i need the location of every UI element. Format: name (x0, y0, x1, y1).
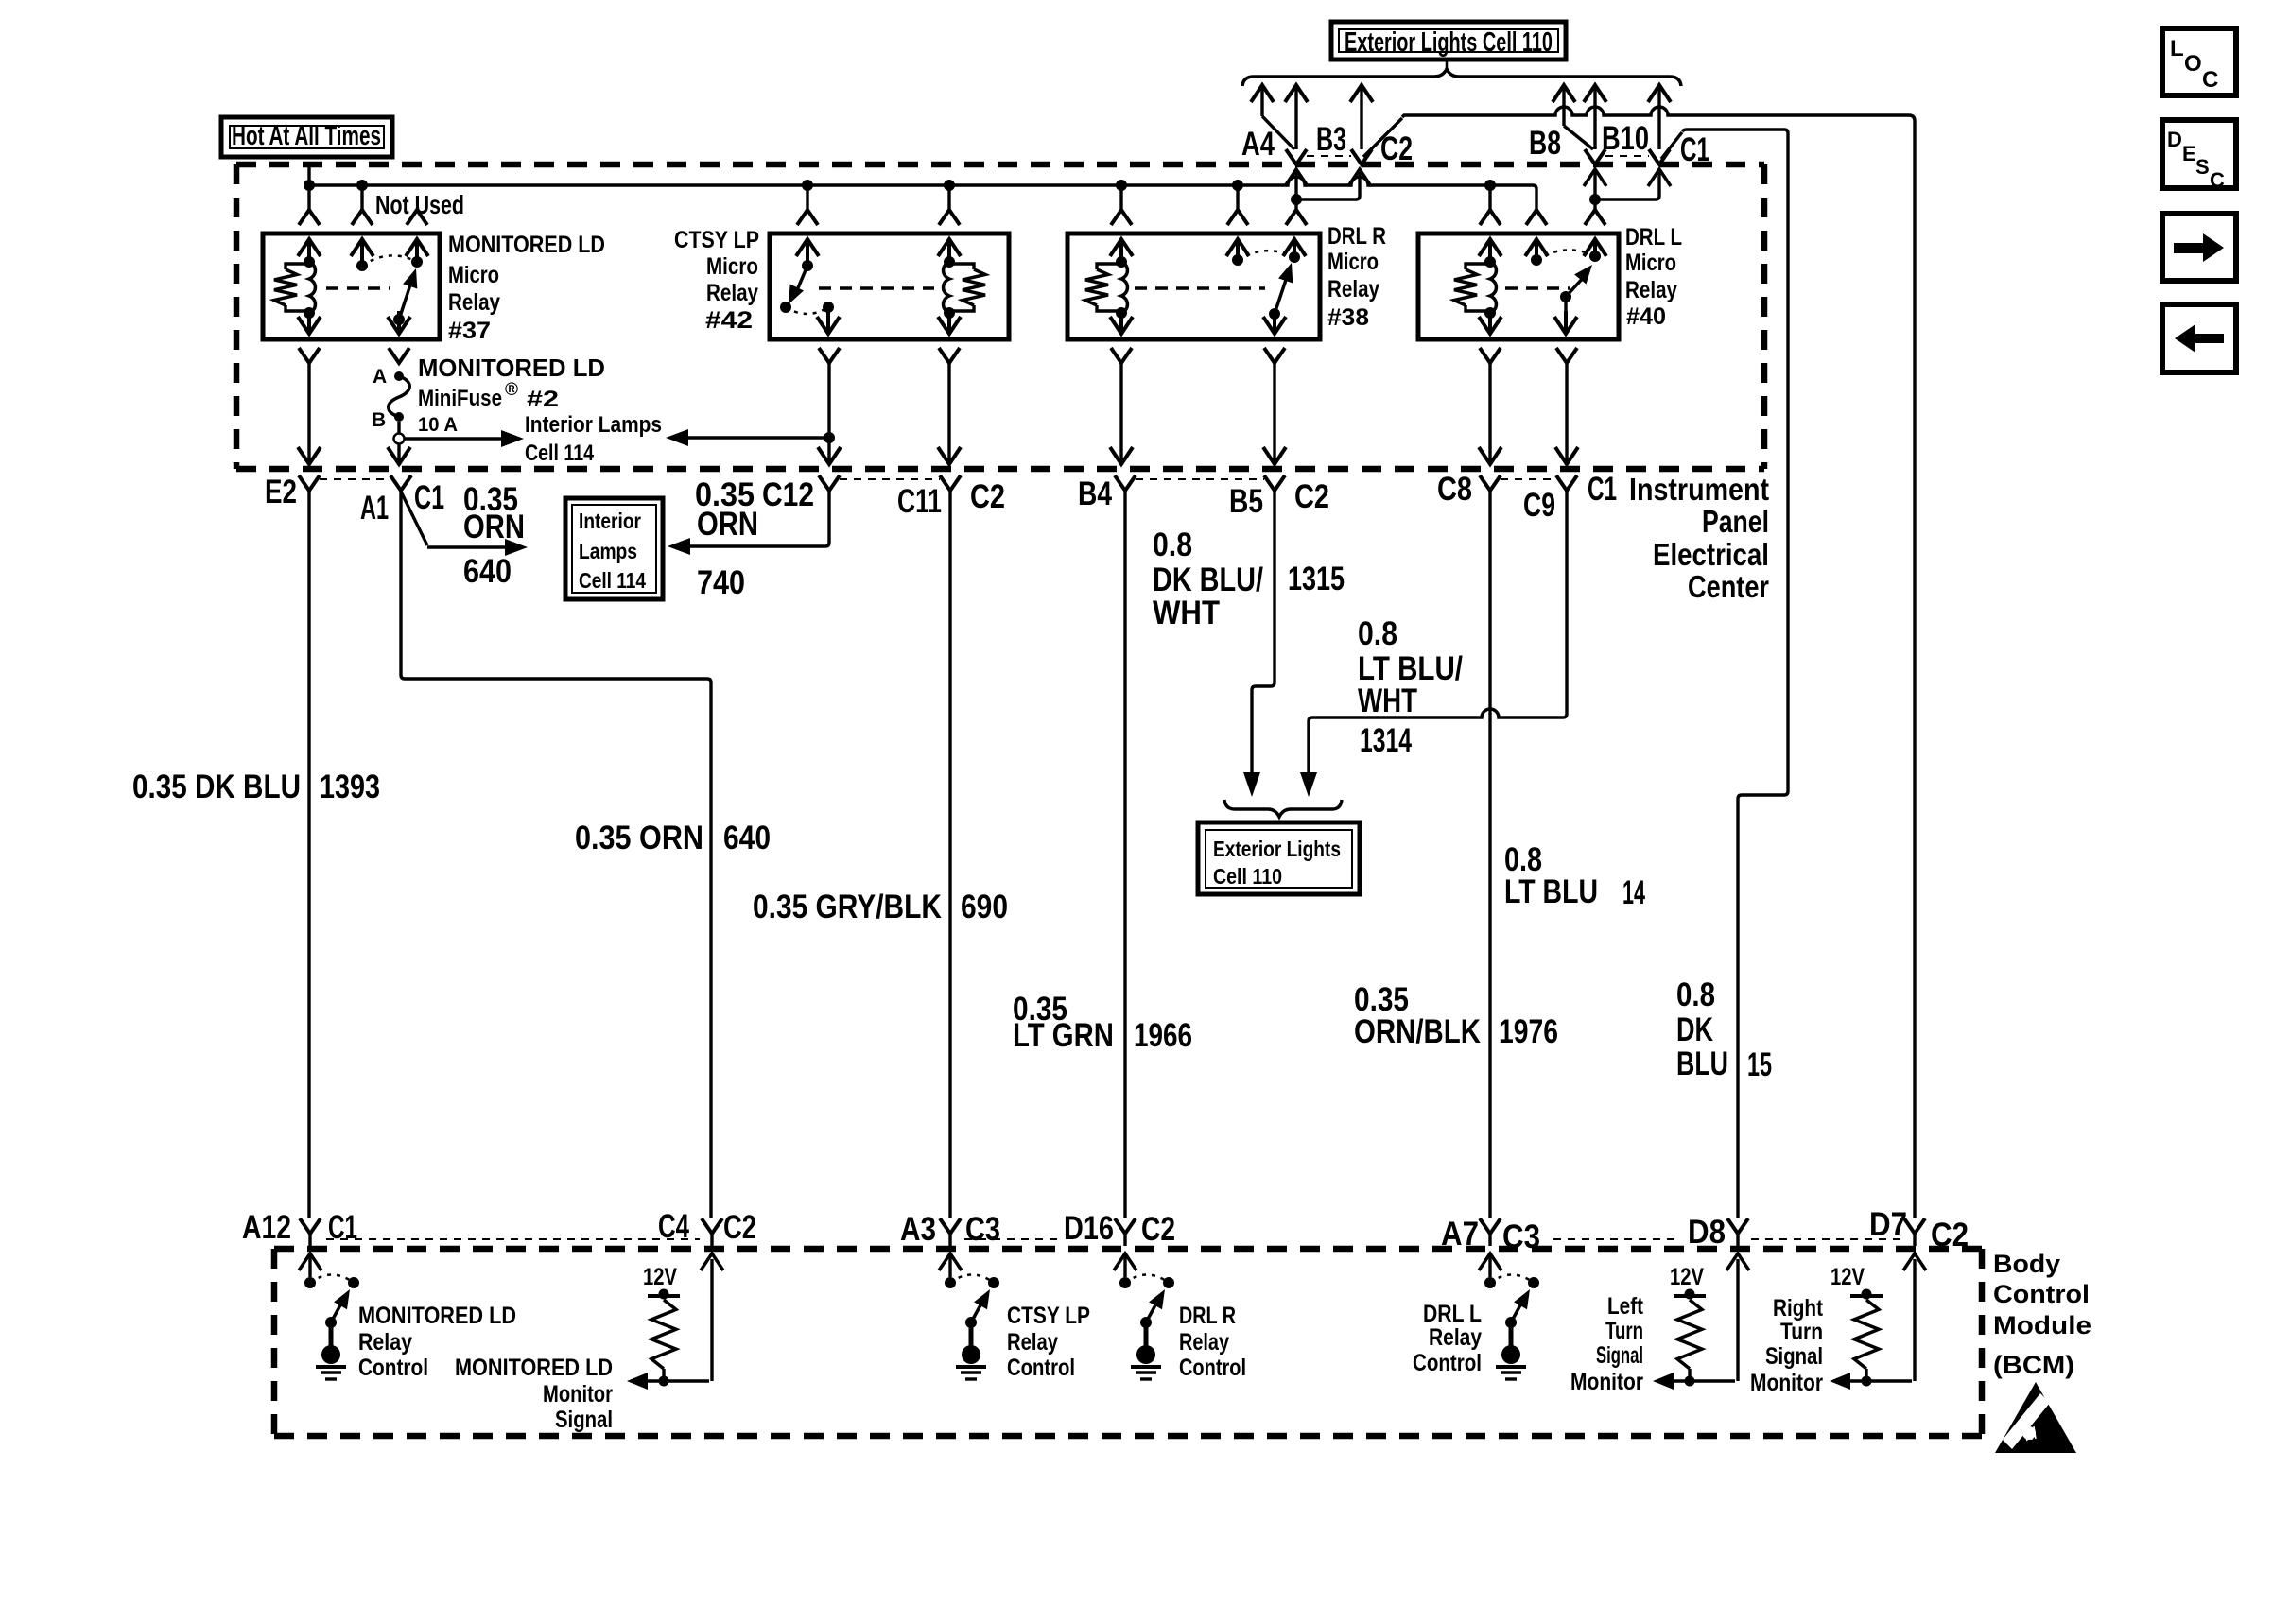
BCM pin D16 connector (1115, 1218, 1136, 1234)
wire from junction down to relay contact (1294, 199, 1297, 210)
bus junction dot K40 coil feed (1484, 180, 1496, 191)
svg-text:D: D (2167, 128, 2182, 151)
svg-text:Not Used: Not Used (375, 190, 464, 219)
svg-text:12V: 12V (1831, 1264, 1865, 1290)
K37 actuation dashed (326, 286, 390, 290)
bus junction dot K42 coil feed (944, 180, 955, 191)
svg-text:1966: 1966 (1134, 1017, 1192, 1054)
thin connector dashes (320, 478, 390, 480)
K37 not-used pin (407, 210, 427, 225)
wire 1393 E2 to A12 (307, 491, 310, 1218)
svg-text:A7: A7 (1441, 1216, 1479, 1253)
svg-text:WHT: WHT (1153, 595, 1220, 631)
svg-text:Monitor: Monitor (1570, 1369, 1643, 1395)
K40 coil pin (1488, 185, 1491, 210)
svg-text:Monitor: Monitor (543, 1381, 613, 1408)
K40 switch mid pin (1526, 210, 1547, 225)
BCM CTSY LP relay control switch (939, 1253, 962, 1270)
pin C1 connector (1649, 149, 1670, 164)
wire B3 riser (1285, 85, 1308, 102)
K40 contact pin riser (1593, 239, 1597, 256)
svg-text:B4: B4 (1078, 475, 1112, 512)
svg-text:DK BLU/: DK BLU/ (1153, 561, 1263, 598)
svg-text:C3: C3 (1502, 1218, 1540, 1255)
right arrow legend box (2162, 214, 2236, 281)
svg-text:C1: C1 (1588, 471, 1617, 508)
LOC legend box (2162, 28, 2236, 95)
brace over Exterior Lights box (lower) (1224, 800, 1342, 817)
svg-text:1314: 1314 (1360, 722, 1412, 759)
BCM pin C4 connector (702, 1218, 722, 1234)
thin dashes BCM top (326, 1238, 700, 1240)
BCM pin A12 connector (300, 1218, 321, 1234)
svg-text:D8: D8 (1688, 1214, 1726, 1251)
svg-text:Interior Lamps: Interior Lamps (525, 412, 662, 438)
svg-text:LT BLU: LT BLU (1504, 873, 1598, 910)
svg-text:A: A (373, 366, 387, 388)
svg-text:DRL R: DRL R (1327, 223, 1386, 250)
bus junction dot K38 coil feed (1116, 180, 1127, 191)
svg-text:1976: 1976 (1499, 1013, 1558, 1050)
BCM pin A3 connector (940, 1218, 961, 1234)
svg-text:Right: Right (1773, 1295, 1824, 1322)
svg-text:C4: C4 (658, 1208, 689, 1245)
BCM pin D8 connector (1727, 1218, 1748, 1234)
IPEC pin E2 connector (299, 475, 320, 491)
svg-text:C1: C1 (328, 1209, 357, 1246)
wire C8 to A7 (1488, 491, 1491, 1218)
K40 switch arm (1560, 291, 1571, 302)
K37 mid pin (bus) (360, 185, 363, 210)
IPEC pin B4 connector (1115, 475, 1136, 491)
svg-text:Relay: Relay (1625, 277, 1677, 303)
Interior Lamps Cell 114 box (565, 498, 663, 599)
svg-text:Interior: Interior (579, 509, 641, 533)
K38 actuation dashed (1135, 286, 1265, 290)
K38 coil pin (1119, 185, 1122, 210)
pin B8/B10 connector (1585, 149, 1605, 164)
svg-text:Cell 110: Cell 110 (1213, 864, 1282, 889)
svg-text:D7: D7 (1869, 1206, 1907, 1243)
svg-text:C2: C2 (723, 1209, 756, 1246)
svg-text:A1: A1 (360, 490, 389, 527)
K42 actuation dashed (819, 286, 934, 290)
K37 coil pin (307, 185, 310, 210)
svg-text:Signal: Signal (1596, 1342, 1643, 1369)
svg-text:CTSY LP: CTSY LP (674, 227, 759, 253)
svg-text:D16: D16 (1064, 1210, 1114, 1247)
svg-text:B: B (372, 409, 386, 431)
svg-text:Relay: Relay (1429, 1324, 1482, 1351)
svg-text:Electrical: Electrical (1653, 537, 1769, 572)
wire K42 coil to C11 (947, 373, 950, 461)
svg-text:CTSY LP: CTSY LP (1007, 1303, 1090, 1329)
svg-text:ORN: ORN (463, 509, 525, 545)
svg-text:#37: #37 (448, 318, 491, 344)
svg-text:Relay: Relay (1327, 276, 1379, 302)
pin B10 arrow from relay DRL L (1584, 169, 1606, 186)
svg-text:C2: C2 (1931, 1217, 1969, 1253)
K37 contact arc (362, 255, 417, 266)
svg-text:DRL L: DRL L (1625, 224, 1682, 251)
svg-text:Module: Module (1993, 1311, 2091, 1339)
svg-text:Relay: Relay (1007, 1329, 1058, 1356)
BCM DRL L relay control switch (1479, 1253, 1501, 1270)
svg-text:Micro: Micro (1625, 250, 1676, 276)
svg-text:690: 690 (961, 889, 1008, 925)
svg-text:MONITORED LD: MONITORED LD (358, 1303, 516, 1329)
bus wire to BCM D7 with hops (1402, 107, 1915, 1218)
arrow to Interior Lamps text (405, 437, 503, 441)
wire from border to bus (307, 167, 310, 185)
svg-text:Relay: Relay (706, 280, 758, 306)
wire B10 riser (1584, 85, 1606, 102)
K38 contact pin riser (1293, 239, 1296, 257)
K38 switch mid pin (1236, 185, 1239, 210)
svg-text:B5: B5 (1229, 483, 1263, 520)
svg-text:ORN/BLK: ORN/BLK (1354, 1013, 1481, 1050)
svg-text:B10: B10 (1602, 120, 1649, 157)
svg-text:0.8: 0.8 (1358, 615, 1397, 652)
IPEC pin C11 connector (940, 475, 961, 491)
svg-text:WHT: WHT (1358, 682, 1417, 719)
svg-text:BLU: BLU (1676, 1045, 1728, 1082)
svg-text:15: 15 (1747, 1046, 1772, 1083)
svg-text:#40: #40 (1626, 303, 1666, 330)
svg-text:1393: 1393 (320, 769, 380, 805)
svg-text:Signal: Signal (555, 1407, 613, 1433)
wire C1 riser (1648, 85, 1671, 102)
wire 690 C11 to A3 (948, 491, 951, 1218)
wire 1966 B4 to D16 (1123, 491, 1126, 1218)
svg-text:0.8: 0.8 (1676, 976, 1715, 1013)
thin connector dash A4-B3 (1307, 155, 1351, 157)
svg-text:#42: #42 (705, 307, 753, 334)
wire C1 diagonal and run to BCM D8 (1661, 132, 1682, 159)
svg-text:MONITORED LD: MONITORED LD (418, 354, 605, 382)
IPEC supply bus (309, 177, 1536, 210)
bus junction dot K42 switch feed (802, 180, 813, 191)
Instrument Panel Electrical Center dashed box (236, 162, 1764, 168)
svg-text:Exterior Lights: Exterior Lights (1213, 837, 1341, 861)
DESC legend box (2162, 120, 2236, 188)
Body Control Module dashed box (274, 1246, 1982, 1253)
wire 640 A1 branch to interior lamps (401, 492, 427, 545)
svg-text:12V: 12V (1670, 1264, 1704, 1290)
svg-text:Signal: Signal (1765, 1343, 1823, 1370)
svg-text:Relay: Relay (1179, 1329, 1229, 1356)
ESD sensitive symbol (1995, 1382, 2076, 1453)
svg-text:0.35 DK BLU: 0.35 DK BLU (132, 769, 301, 805)
svg-text:640: 640 (723, 820, 771, 856)
svg-text:Cell 114: Cell 114 (525, 441, 595, 466)
svg-text:14: 14 (1622, 874, 1645, 911)
svg-text:C2: C2 (1294, 478, 1329, 515)
svg-text:C2: C2 (970, 478, 1005, 515)
svg-text:(BCM): (BCM) (1993, 1351, 2074, 1379)
svg-text:Instrument: Instrument (1629, 472, 1769, 507)
wire 1315 B5 to exterior lights (1252, 491, 1275, 777)
svg-text:Hot At All Times: Hot At All Times (232, 121, 381, 151)
svg-text:Control: Control (358, 1355, 428, 1381)
svg-text:12V: 12V (643, 1264, 677, 1290)
svg-text:DRL L: DRL L (1423, 1301, 1482, 1327)
svg-text:B3: B3 (1316, 121, 1346, 158)
K42 contact arc (786, 307, 828, 314)
svg-text:C: C (2210, 168, 2225, 192)
Hot At All Times box (221, 117, 392, 157)
svg-text:#2: #2 (527, 387, 559, 412)
pin B3 connector (1351, 149, 1372, 164)
IPEC pin C12 connector (819, 475, 840, 491)
svg-text:MONITORED LD: MONITORED LD (448, 232, 605, 258)
svg-text:Control: Control (1413, 1350, 1482, 1376)
svg-text:640: 640 (463, 553, 512, 590)
K42 switch mid pin (806, 185, 808, 210)
fuse splice circle (397, 422, 400, 434)
relay K42 CTSY LP box (770, 233, 1009, 339)
svg-text:Relay: Relay (358, 1329, 412, 1356)
svg-text:Lamps: Lamps (579, 539, 637, 563)
svg-text:DRL R: DRL R (1179, 1303, 1236, 1329)
svg-text:Turn: Turn (1605, 1318, 1643, 1344)
wire 640 A1 to C4 (401, 491, 711, 1218)
svg-text:Relay: Relay (448, 289, 500, 316)
svg-text:LT GRN: LT GRN (1013, 1017, 1114, 1054)
svg-text:10 A: 10 A (418, 414, 458, 436)
svg-text:S: S (2195, 155, 2210, 179)
svg-text:C1: C1 (1680, 131, 1709, 168)
svg-text:Body: Body (1993, 1250, 2060, 1278)
svg-text:Micro: Micro (448, 262, 499, 288)
svg-text:0.35 ORN: 0.35 ORN (575, 820, 703, 856)
svg-text:MiniFuse: MiniFuse (418, 386, 502, 411)
relay K37 MONITORED LD box (263, 233, 440, 339)
svg-text:C3: C3 (965, 1211, 1000, 1248)
IPEC pin C9 connector (1556, 475, 1577, 491)
svg-text:B8: B8 (1529, 125, 1561, 162)
K37 switch arm (393, 314, 405, 325)
junction B10/C1 (1589, 194, 1601, 205)
wire B8 to Exterior Lights (1553, 85, 1575, 102)
svg-text:Left: Left (1607, 1293, 1644, 1320)
K37 coil (304, 256, 315, 268)
svg-text:A3: A3 (900, 1211, 936, 1248)
svg-text:ORN: ORN (697, 506, 758, 543)
bus junction dot K38 switch feed (1232, 180, 1243, 191)
BCM DRL R relay control switch (1114, 1253, 1136, 1270)
wire K40 coil to C8 (1488, 373, 1491, 461)
junction A4/B3 (1291, 194, 1302, 205)
svg-text:Control: Control (1993, 1280, 2090, 1308)
svg-text:®: ® (505, 380, 518, 400)
svg-text:L: L (2170, 36, 2184, 61)
IPEC pin C8 connector (1480, 475, 1501, 491)
svg-text:Exterior Lights Cell 110: Exterior Lights Cell 110 (1345, 27, 1553, 58)
svg-text:C: C (2202, 67, 2218, 93)
svg-text:C2: C2 (1141, 1211, 1175, 1248)
svg-text:Micro: Micro (1327, 249, 1379, 275)
left arrow legend box (2162, 304, 2236, 372)
svg-text:DK: DK (1676, 1011, 1713, 1048)
svg-text:#38: #38 (1327, 304, 1369, 331)
relay K40 DRL L box (1418, 233, 1619, 339)
wire C2 diagonal to D7 bus (1363, 118, 1402, 157)
svg-text:Micro: Micro (706, 253, 758, 280)
pin A4 connector (1286, 149, 1307, 164)
wire A4 to Exterior Lights (1251, 85, 1274, 102)
wire K38 out to B5 (1273, 373, 1275, 461)
svg-text:A12: A12 (242, 1209, 291, 1246)
BCM pin A7 connector (1480, 1218, 1501, 1234)
K40 contact arc (1536, 250, 1595, 260)
svg-text:0.8: 0.8 (1153, 527, 1192, 563)
K38 contact arc (1238, 251, 1294, 260)
wire 1314 C9 to exterior lights (1309, 491, 1567, 777)
svg-text:740: 740 (697, 564, 745, 601)
svg-text:A4: A4 (1241, 126, 1275, 163)
svg-text:Cell 114: Cell 114 (579, 568, 646, 593)
K42 switch arm (794, 266, 807, 297)
svg-text:C1: C1 (414, 479, 444, 516)
wire 740 C12 to interior lamps (679, 491, 829, 546)
svg-text:0.35 GRY/BLK: 0.35 GRY/BLK (753, 889, 942, 925)
svg-text:Panel: Panel (1702, 504, 1769, 539)
wire K40 out to C9 (1565, 412, 1568, 461)
svg-text:Center: Center (1688, 569, 1769, 604)
svg-text:C11: C11 (897, 483, 942, 520)
Exterior Lights Cell 110 box (lower) (1198, 822, 1360, 894)
wire K38 coil to B4 (1119, 373, 1122, 461)
arrow from CTSY wire to Interior Lamps text (677, 436, 826, 440)
svg-text:Control: Control (1007, 1355, 1075, 1381)
IPEC pin B5 connector (1264, 475, 1285, 491)
svg-text:E2: E2 (265, 474, 297, 510)
svg-text:Turn: Turn (1780, 1319, 1823, 1345)
BCM pin D7 connector (1904, 1218, 1925, 1234)
bus junction dot K37 coil feed (304, 180, 315, 191)
svg-text:E: E (2182, 142, 2196, 165)
svg-text:O: O (2184, 51, 2202, 77)
K42 coil pin (947, 185, 950, 210)
svg-text:Control: Control (1179, 1355, 1246, 1381)
brace under Exterior Lights box (1242, 69, 1681, 86)
svg-text:C9: C9 (1523, 487, 1555, 524)
IPEC pin A1 connector (390, 475, 411, 491)
K42 out pin (826, 307, 829, 311)
bus junction dot K37 mid pin feed (356, 180, 368, 191)
svg-text:C12: C12 (762, 476, 814, 513)
BCM MONITORED LD relay control switch (299, 1253, 321, 1270)
K40 actuation dashed (1505, 286, 1570, 290)
wire K42 out to C12 (827, 412, 830, 438)
Exterior Lights Cell 110 box (top) (1331, 22, 1566, 60)
svg-text:MONITORED LD: MONITORED LD (455, 1355, 613, 1381)
svg-text:1315: 1315 (1288, 561, 1345, 597)
svg-text:C8: C8 (1437, 471, 1472, 508)
wire K37 coil to E2 (307, 373, 310, 461)
pin A4 arrow from relay DRL R (1285, 169, 1308, 186)
svg-text:Monitor: Monitor (1750, 1370, 1823, 1396)
wire C2 riser (1350, 85, 1373, 102)
relay K38 DRL R box (1067, 233, 1320, 339)
thin connector dash B10-C1 (1605, 155, 1649, 157)
K38 switch arm (1269, 308, 1280, 320)
